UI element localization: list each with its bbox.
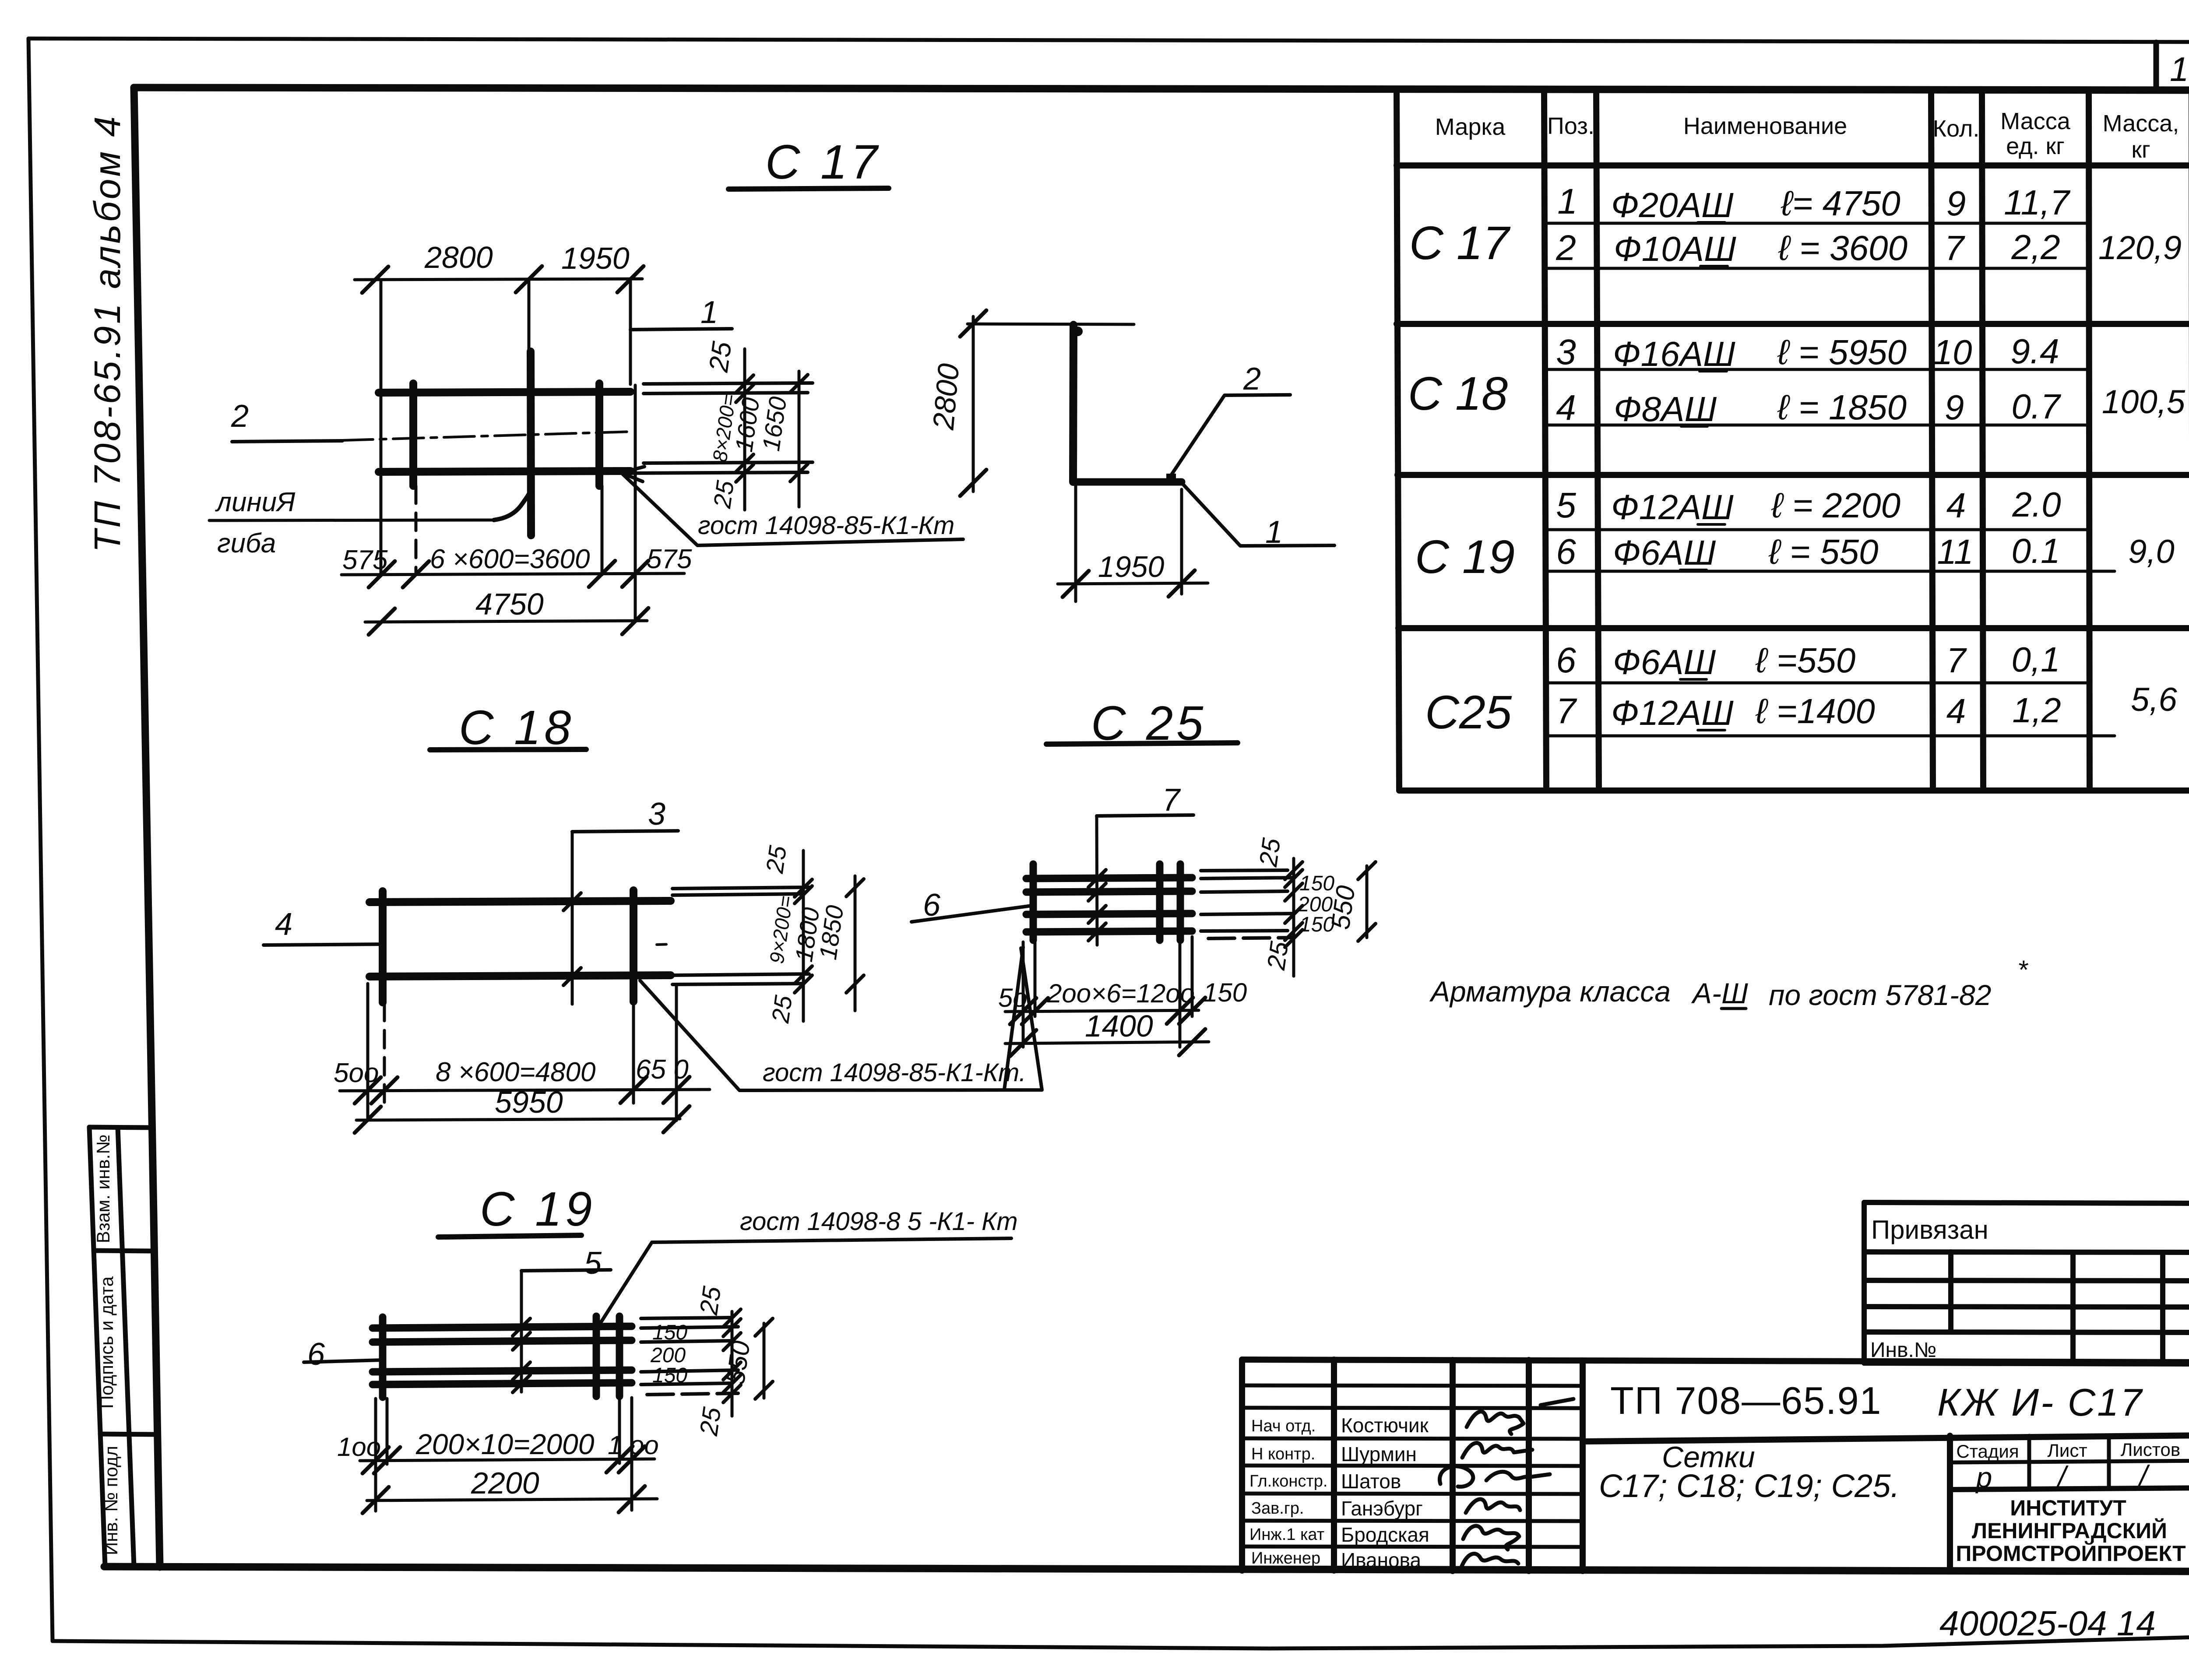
C17 leader 1 bracket: [630, 329, 732, 330]
C18 leader 4: [264, 944, 383, 945]
svg-text:Стадия: Стадия: [1956, 1441, 2019, 1462]
C18 right section wire pairs: [672, 887, 809, 984]
bent bar leader 2: [1171, 395, 1290, 476]
C19 total dim line 2200: [367, 1499, 657, 1501]
C25 right section wires: [1201, 870, 1294, 938]
liniya giba label line: [209, 520, 494, 520]
table total mass values: [2098, 229, 2185, 718]
sheet number box "13" top right: [2156, 42, 2189, 90]
stadiya values: [1975, 1459, 2150, 1494]
bent bar detail: top extension line: [968, 324, 1134, 324]
C18 vertical dim line 1800: [802, 851, 805, 1021]
svg-text:ИНСТИТУТ: ИНСТИТУТ: [2010, 1496, 2126, 1520]
svg-text:р: р: [1975, 1461, 1992, 1494]
C19 section dim line 150/200/150: [731, 1311, 734, 1416]
svg-text:Ганэбург: Ганэбург: [1341, 1497, 1423, 1520]
C18 gost weld leader: [640, 948, 1042, 1090]
table A-III underline marks: [1680, 222, 1728, 730]
C17 vertical dim line 1600: [743, 349, 746, 510]
C25 leader 6: [911, 905, 1035, 922]
C17 mesh vertical bar poz.1 left: [409, 383, 417, 486]
table headers: [1435, 108, 2179, 163]
svg-text:Бродская: Бродская: [1341, 1523, 1429, 1546]
wire junction square dot: [1166, 474, 1176, 483]
stadiya list listov headers: [1956, 1439, 2180, 1462]
svg-text:ЛЕНИНГРАДСКИЙ: ЛЕНИНГРАДСКИЙ: [1972, 1518, 2167, 1543]
C17 top dimension line 2800/1950: [355, 279, 642, 574]
title block rows: [1242, 1385, 2189, 1547]
C25 dim line 550: [1365, 866, 1369, 938]
C17 leader 2 line: [232, 441, 342, 442]
C19 gost leader: [599, 1238, 1011, 1325]
specification table grid: [1397, 90, 2189, 791]
C18 leader 3: [572, 831, 678, 832]
table mark column values: [1408, 216, 1515, 738]
C18 title underline: [430, 749, 586, 750]
C18 bottom dim line 500/4800/650: [340, 1090, 710, 1091]
C18 mesh bottom horizontal bar poz.3: [370, 975, 671, 977]
table poz numbers: [1556, 182, 1577, 731]
svg-text:ПРОМСТРОЙПРОЕКТ: ПРОМСТРОЙПРОЕКТ: [1956, 1541, 2185, 1566]
bent bar detail: vertical dim 2800: [972, 316, 975, 492]
C17 vertical dim line 1650: [798, 371, 801, 507]
C17 gost weld leader: [621, 473, 963, 545]
C25 title underline: [1046, 743, 1238, 744]
C19 mesh vertical bars poz.6: [383, 1316, 619, 1397]
svg-text:400025-04 14: 400025-04 14: [1939, 1604, 2156, 1643]
svg-text:Нач отд.: Нач отд.: [1251, 1417, 1316, 1435]
bent bar leader 1: [1182, 484, 1334, 546]
svg-text:Костючик: Костючик: [1341, 1414, 1429, 1437]
bend point dot: [1073, 327, 1083, 336]
svg-text:С17; С18; С19; С25.: С17; С18; С19; С25.: [1599, 1468, 1900, 1504]
svg-text:Гл.констр.: Гл.констр.: [1249, 1472, 1327, 1490]
C17 mesh bottom horizontal bar poz.2: [379, 471, 630, 472]
C19 mesh horizontal wires poz.5: [373, 1326, 632, 1385]
privyazan box frame: [1864, 1202, 2189, 1364]
C25 gost link diagonal: [1004, 947, 1023, 1090]
C18 vertical dim line 1850: [854, 876, 857, 1011]
svg-text:Инженер: Инженер: [1251, 1549, 1320, 1568]
svg-text:Инж.1 кат: Инж.1 кат: [1249, 1525, 1324, 1544]
stamp role labels: [1249, 1417, 1327, 1568]
C19 leader 6: [304, 1360, 383, 1362]
bent bar poz.1 vertical leg: [1073, 325, 1073, 482]
C17 cross-section wires right top pair: [624, 383, 813, 473]
C25 section dim line 150/200/150: [1292, 858, 1295, 976]
C19 right section wires: [641, 1318, 738, 1395]
C18 mesh vertical bar poz.4 left: [379, 891, 387, 1002]
C19 bottom dim line 100/2000/100: [360, 1459, 655, 1461]
C25 mesh vertical bars poz.6: [1033, 864, 1180, 940]
C17 mesh vertical bar poz.1 middle (bend line): [531, 351, 531, 535]
C17 mesh center dash-dot axis: [342, 432, 633, 440]
table kol values: [1933, 184, 1974, 731]
svg-text:Зав.гр.: Зав.гр.: [1251, 1499, 1304, 1518]
svg-text:Лист: Лист: [2047, 1440, 2087, 1461]
table naimenovanie entries: [1611, 184, 1907, 732]
C25 leader 7: [1097, 815, 1193, 816]
C25 bottom dim line 50/1200/150: [1005, 1010, 1199, 1012]
left margin stamp strip boxes: [89, 1127, 158, 1566]
C17 mesh top horizontal bar poz.2: [379, 392, 630, 393]
C18 mesh vertical bar poz.4 right: [630, 890, 637, 1002]
svg-text:КЖ И- С17: КЖ И- С17: [1937, 1381, 2143, 1424]
C17 mesh vertical bar poz.1 right: [595, 383, 603, 486]
C19 title underline: [438, 1235, 581, 1237]
C18 center dash segment: [657, 944, 672, 945]
C19 dim line 550: [763, 1323, 766, 1398]
bent bar 1950 dim extensions: [1058, 485, 1208, 601]
table thin sub-row lines: [1545, 223, 2115, 736]
svg-text:Шатов: Шатов: [1341, 1470, 1401, 1493]
institute name: [1956, 1496, 2185, 1566]
C18 mesh top horizontal bar poz.3: [370, 901, 671, 902]
title block frame: [1242, 1360, 2189, 1571]
svg-text:Шурмин: Шурмин: [1341, 1443, 1417, 1466]
C17 bottom dim line 575/3600/575: [341, 385, 684, 621]
C18 bottom dim extensions: [368, 984, 676, 1121]
bent bar poz.1 horizontal leg: [1073, 478, 1182, 486]
C19 bottom dim extensions: [376, 1398, 632, 1511]
svg-text:Иванова: Иванова: [1341, 1549, 1421, 1571]
signature scribbles: [1439, 1399, 1573, 1567]
C25 mesh horizontal wires poz.7: [1026, 878, 1192, 932]
C17 bend jog curve: [494, 490, 531, 520]
svg-text:Листов: Листов: [2121, 1439, 2180, 1460]
stamp name labels: [1341, 1414, 1429, 1571]
table unit mass values: [2004, 183, 2070, 730]
C25 total dim line 1400: [1005, 1042, 1209, 1044]
C25 bottom dim extensions: [1023, 937, 1192, 1047]
C17 total dim line 4750: [365, 621, 647, 622]
svg-text:ТП 708—65.91: ТП 708—65.91: [1610, 1379, 1882, 1422]
svg-text:Н контр.: Н контр.: [1251, 1445, 1315, 1463]
C19 leader 5: [521, 1270, 611, 1271]
C17 title underline: [728, 188, 889, 189]
C18 total dim line 5950: [356, 1119, 680, 1120]
